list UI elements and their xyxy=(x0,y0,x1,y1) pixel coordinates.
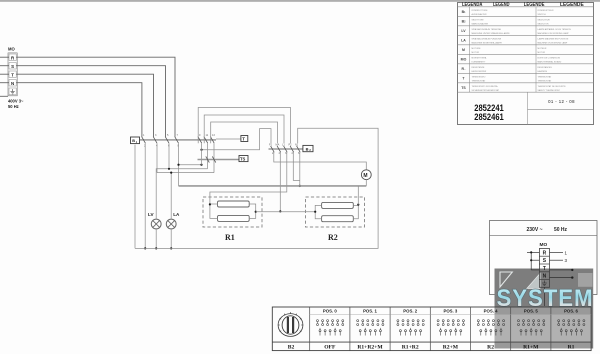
svg-text:MASCHINE UNTER SPANNUNG-LAMPE: MASCHINE UNTER SPANNUNG-LAMPE xyxy=(472,32,511,35)
contact B2-3 xyxy=(284,146,288,152)
svg-text:POS. 6: POS. 6 xyxy=(564,309,578,314)
svg-text:RESISTENZE: RESISTENZE xyxy=(472,67,485,69)
wire pin4 jog xyxy=(293,152,300,180)
svg-text:SELECTOR: SELECTOR xyxy=(538,24,550,26)
contact B2-2 xyxy=(277,146,281,152)
wire loop 2 xyxy=(204,115,284,143)
svg-text:LEGENDE: LEGENDE xyxy=(524,2,545,8)
page top border xyxy=(0,0,600,2)
svg-text:POS. 3: POS. 3 xyxy=(443,309,457,314)
logo triangle 1 xyxy=(500,272,512,287)
wire phase T from MO to switch xyxy=(16,74,153,137)
logo triangle 2 xyxy=(527,274,540,289)
svg-text:MACHINE LIVE WORKING LAMP: MACHINE LIVE WORKING LAMP xyxy=(538,32,570,35)
svg-text:LEGENDA: LEGENDA xyxy=(462,2,483,8)
node LA tap xyxy=(170,172,172,174)
svg-text:LEGENDE: LEGENDE xyxy=(560,2,584,8)
node N-rail xyxy=(144,247,146,249)
svg-text:POS. 1: POS. 1 xyxy=(363,309,377,314)
svg-text:THERMOSTAT: THERMOSTAT xyxy=(472,80,487,83)
thermostat T box xyxy=(241,136,248,142)
svg-text:LV: LV xyxy=(148,212,154,217)
selector B2 bar xyxy=(269,148,303,150)
svg-text:N: N xyxy=(543,274,547,280)
wire mains R xyxy=(0,56,9,58)
svg-text:R1: R1 xyxy=(225,233,235,242)
switch B1 box xyxy=(131,137,140,144)
heater R1 element 2 xyxy=(218,215,250,221)
contact TS-1 xyxy=(206,156,210,162)
svg-text:THERMOSTAT: THERMOSTAT xyxy=(538,80,553,83)
wire pin1 to motor xyxy=(274,152,367,170)
wire loop 1 xyxy=(198,108,290,144)
svg-text:B1: B1 xyxy=(462,10,467,14)
switch B1 bar xyxy=(140,139,216,141)
node S drop joins LV wire xyxy=(168,168,170,170)
node LV-rail xyxy=(155,247,157,249)
svg-text:THERMOSTAT: THERMOSTAT xyxy=(538,76,553,79)
svg-text:B: B xyxy=(306,146,309,151)
wire bar to thermostat T xyxy=(216,138,241,140)
node bridge S xyxy=(530,259,532,261)
node R2 in xyxy=(314,211,316,213)
svg-text:N: N xyxy=(11,81,14,86)
wire R1 left xyxy=(210,204,218,218)
svg-text:B2: B2 xyxy=(462,19,467,23)
svg-text:LEGEND: LEGEND xyxy=(493,2,510,8)
ground symbol in MO block xyxy=(10,89,14,94)
svg-text:WAHLSCHALTER: WAHLSCHALTER xyxy=(472,23,489,26)
svg-text:MASCHINE IN BETRIEB-LAMPE: MASCHINE IN BETRIEB-LAMPE xyxy=(472,42,503,45)
svg-text:SELECTEUR: SELECTEUR xyxy=(538,20,551,22)
svg-text:LA: LA xyxy=(461,38,466,42)
node R1 left xyxy=(209,203,211,205)
table bottom labels xyxy=(288,344,575,350)
safety thermostat TS box xyxy=(239,156,248,162)
wire loop 3 xyxy=(211,122,278,143)
svg-text:TS: TS xyxy=(461,86,466,90)
node feeder junction xyxy=(299,185,301,187)
svg-text:230V ~: 230V ~ xyxy=(527,227,543,233)
contact B2-1 xyxy=(271,146,275,152)
svg-text:RESISTANCES: RESISTANCES xyxy=(538,66,553,69)
svg-text:POS. 2: POS. 2 xyxy=(403,309,417,314)
svg-text:OFF: OFF xyxy=(324,344,336,350)
svg-text:MOTOR: MOTOR xyxy=(538,52,546,54)
node bridge R xyxy=(530,251,532,253)
wire mains earth xyxy=(0,95,8,97)
svg-text:HEATERS: HEATERS xyxy=(538,70,548,73)
node R tap on vertical xyxy=(200,164,202,166)
legend row texts xyxy=(472,10,572,92)
wire R2 right xyxy=(353,205,358,218)
node R tap on feeder xyxy=(177,164,179,166)
contact B1-4 (R) xyxy=(175,137,179,144)
node pin2-R1 xyxy=(279,210,281,212)
svg-text:R2: R2 xyxy=(328,233,338,242)
svg-text:R1+R2+M: R1+R2+M xyxy=(357,344,383,350)
contact B1-3 (S) xyxy=(165,137,169,144)
heater R2 element 2 xyxy=(322,216,354,222)
wire loop 4 xyxy=(202,129,272,150)
wire pin5 down to feeder node xyxy=(299,152,301,186)
lamp LV xyxy=(151,219,161,229)
svg-text:T: T xyxy=(242,136,245,141)
contact B1-6 xyxy=(204,137,208,144)
node loop4 tap xyxy=(200,149,202,151)
svg-text:SELETTORE: SELETTORE xyxy=(472,20,485,22)
svg-text:SPIA MACCHINA IN TENSIONE: SPIA MACCHINA IN TENSIONE xyxy=(472,28,502,31)
svg-text:POS. 4: POS. 4 xyxy=(484,309,498,314)
pin numbers B1 xyxy=(143,134,215,148)
svg-text:2852461: 2852461 xyxy=(474,112,504,122)
svg-text:T: T xyxy=(11,72,14,77)
lamp LA xyxy=(166,219,176,229)
svg-text:POS. 0: POS. 0 xyxy=(323,309,337,314)
svg-text:INTERRUPTEUR: INTERRUPTEUR xyxy=(538,10,555,12)
contact B2-4 xyxy=(290,146,294,152)
svg-text:POS. 5: POS. 5 xyxy=(524,309,538,314)
wire 230V line 1 xyxy=(550,251,564,253)
svg-text:T: T xyxy=(543,266,546,272)
legend codes xyxy=(461,10,467,90)
logo square xyxy=(578,273,593,287)
wire phase R from MO to switch xyxy=(16,57,175,137)
node R1 out xyxy=(255,211,257,213)
terminal block MO xyxy=(8,53,17,96)
legend header xyxy=(462,2,584,8)
svg-text:AUSSCHALTER: AUSSCHALTER xyxy=(472,13,487,16)
selector box B2 xyxy=(303,145,313,151)
wire R1 right xyxy=(249,204,256,218)
wire LV to rail xyxy=(155,229,157,249)
contact B1-1 (N) xyxy=(142,137,146,144)
heater R2 element 1 xyxy=(322,202,354,208)
svg-text:R2: R2 xyxy=(487,344,494,350)
wire contact cluster vertical 1 xyxy=(201,143,203,165)
wire contact cluster vertical 2 xyxy=(207,143,209,169)
heater R2 dashed box xyxy=(306,197,365,227)
wire mains N xyxy=(0,82,9,84)
svg-text:MOTOR: MOTOR xyxy=(472,52,480,54)
contact B1-7 xyxy=(210,137,214,144)
svg-text:TERMOSTATO SICUREZZA: TERMOSTATO SICUREZZA xyxy=(472,85,499,88)
svg-text:MAIN TERMINAL BOARD: MAIN TERMINAL BOARD xyxy=(538,61,562,64)
position table background lightening xyxy=(495,314,592,342)
wire LV feed xyxy=(156,169,207,219)
wire bottom rail xyxy=(135,128,378,248)
wire pin3 down to R1 left xyxy=(210,152,287,204)
wire 230V bridge left xyxy=(527,252,539,270)
wire N contact down to rail xyxy=(144,143,146,248)
230V auxiliary box xyxy=(490,221,598,295)
wire R2 up to feeder xyxy=(357,186,359,205)
wire 230V line 3 xyxy=(550,259,564,261)
ground symbol 230V block xyxy=(542,281,547,286)
heater R1 element 1 xyxy=(218,201,250,207)
wire R contact down to feeder xyxy=(178,143,180,186)
svg-text:R1+M: R1+M xyxy=(523,344,539,350)
svg-text:LAMPE APPAREIL SOUS TENSION: LAMPE APPAREIL SOUS TENSION xyxy=(538,28,572,31)
svg-text:SPIA MACCHINA IN FUNZIONE: SPIA MACCHINA IN FUNZIONE xyxy=(472,38,502,41)
svg-text:50 Hz: 50 Hz xyxy=(8,104,19,109)
legend table frame xyxy=(458,3,594,125)
position table grid xyxy=(272,307,591,351)
svg-text:SAFETY THERMOSTAT: SAFETY THERMOSTAT xyxy=(538,89,561,92)
svg-text:S: S xyxy=(11,64,14,69)
wire pin2 down to R1 output node xyxy=(279,152,281,211)
contact state symbols xyxy=(317,320,585,336)
node R2 right xyxy=(357,204,359,206)
svg-text:R1+R2: R1+R2 xyxy=(402,344,419,350)
svg-text:HEIZKOERPER: HEIZKOERPER xyxy=(472,71,487,73)
safety thermostat TS wire xyxy=(198,159,240,161)
wire contact cluster vertical 3 xyxy=(213,143,215,172)
wire LA to rail xyxy=(170,229,172,249)
svg-text:TS: TS xyxy=(240,156,246,161)
svg-text:50 Hz: 50 Hz xyxy=(554,227,568,233)
wire feeder R phase xyxy=(179,185,367,187)
svg-text:TERMOSTATO: TERMOSTATO xyxy=(472,76,486,79)
wire R tap to node xyxy=(179,164,202,166)
terminal block MO 230V xyxy=(539,249,549,288)
svg-text:R2+M: R2+M xyxy=(443,344,459,350)
svg-text:THERMOSTAT DE SECURITE: THERMOSTAT DE SECURITE xyxy=(538,85,567,88)
node line T end xyxy=(571,269,573,271)
wire T contact down xyxy=(156,143,158,172)
contact TS-2 xyxy=(212,156,216,162)
node line N end xyxy=(571,276,573,278)
svg-text:LA: LA xyxy=(173,212,180,217)
svg-text:LV: LV xyxy=(461,29,466,33)
wire B1 box down to rail xyxy=(134,145,136,249)
wire phase N from MO to switch xyxy=(16,83,142,137)
svg-text:KLEMMBRETT: KLEMMBRETT xyxy=(472,62,487,64)
contact B1-5 xyxy=(198,137,202,144)
svg-text:01 - 12 - 08: 01 - 12 - 08 xyxy=(548,99,575,104)
wire phase S from MO to switch xyxy=(16,66,165,137)
selector pin labels xyxy=(269,144,300,155)
contact B1-2 (T) xyxy=(153,137,157,144)
node LA-rail xyxy=(170,247,172,249)
svg-text:B: B xyxy=(132,139,135,143)
svg-text:B2: B2 xyxy=(288,344,295,350)
wire motor bottom xyxy=(365,180,367,186)
svg-text:R: R xyxy=(543,250,547,256)
svg-text:SWITCH: SWITCH xyxy=(538,14,547,16)
table headers POS.0-6 xyxy=(323,309,579,314)
svg-text:SICHERHEITSTHERMOSTAT: SICHERHEITSTHERMOSTAT xyxy=(472,89,500,92)
svg-text:BOITE DE CONNEXION: BOITE DE CONNEXION xyxy=(538,58,561,60)
svg-text:R1: R1 xyxy=(568,344,575,350)
wire R2 left xyxy=(315,205,321,218)
svg-text:MORSETTIERA: MORSETTIERA xyxy=(472,57,487,60)
svg-text:M: M xyxy=(462,48,465,52)
wire mains T xyxy=(0,73,9,75)
contact B2-5 xyxy=(297,146,301,152)
wire 230V line N xyxy=(550,277,572,279)
svg-text:MO: MO xyxy=(8,47,15,52)
svg-text:MO: MO xyxy=(540,242,548,248)
svg-text:LAMPE MACHINE EN POSITION: LAMPE MACHINE EN POSITION xyxy=(538,38,569,41)
heater R1 dashed box xyxy=(203,197,262,227)
svg-text:M: M xyxy=(363,173,367,179)
svg-text:MOTEUR: MOTEUR xyxy=(538,48,547,50)
wire S contact down xyxy=(168,143,170,169)
svg-text:MACHINE ON WORKING LAMP: MACHINE ON WORKING LAMP xyxy=(538,42,568,45)
selector knob icon xyxy=(278,312,303,336)
svg-text:MOTORE: MOTORE xyxy=(472,48,482,50)
svg-text:INTERRUTTORE: INTERRUTTORE xyxy=(472,10,489,12)
wire R1 to R2 xyxy=(256,211,316,213)
wire LA feed xyxy=(157,172,214,174)
wire earth below block xyxy=(543,287,545,306)
svg-text:R--: R-- xyxy=(461,67,465,71)
motor M xyxy=(361,170,371,180)
wire mains S xyxy=(0,65,9,67)
svg-text:MO: MO xyxy=(461,57,467,61)
wire 230V line T xyxy=(550,269,572,271)
watermark gray block xyxy=(495,269,594,349)
